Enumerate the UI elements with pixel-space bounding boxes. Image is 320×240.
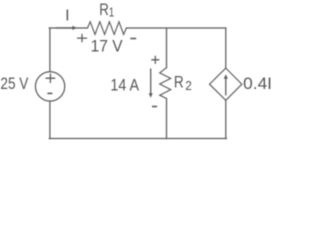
wire left vertical lower — [49, 101, 51, 138]
wire left vertical upper — [49, 28, 51, 72]
minus sign below R2 — [152, 106, 157, 108]
wire top right horizontal — [126, 27, 225, 29]
svg-text:0.4I: 0.4I — [243, 74, 271, 93]
resistor R2 — [160, 68, 171, 99]
wire middle branch bottom — [166, 99, 168, 139]
svg-text:17 V: 17 V — [91, 37, 124, 56]
minus sign of R1 voltage — [130, 38, 136, 40]
plus sign of R1 voltage — [77, 34, 87, 42]
svg-text:2: 2 — [185, 78, 192, 93]
voltage source V1 circle — [35, 72, 64, 101]
wire bottom horizontal — [49, 138, 226, 140]
minus sign inside voltage source — [47, 92, 52, 94]
wire middle branch top — [166, 28, 168, 68]
plus sign above R2 — [151, 56, 159, 64]
svg-text:14 A: 14 A — [110, 75, 139, 94]
svg-text:25 V: 25 V — [0, 74, 29, 93]
wire right branch bottom — [225, 100, 227, 138]
dependent source diamond — [210, 68, 242, 100]
svg-text:I: I — [65, 8, 69, 25]
svg-text:1: 1 — [109, 4, 115, 19]
resistor R1 — [88, 22, 127, 35]
svg-text:R: R — [174, 73, 184, 91]
wire right branch top — [225, 28, 227, 68]
svg-text:R: R — [99, 1, 109, 19]
plus sign inside voltage source — [46, 74, 56, 84]
wire top left horizontal — [49, 27, 87, 29]
14 A current arrow — [150, 69, 152, 94]
dependent source arrow — [225, 78, 227, 95]
current I arrow on top wire — [56, 27, 73, 29]
